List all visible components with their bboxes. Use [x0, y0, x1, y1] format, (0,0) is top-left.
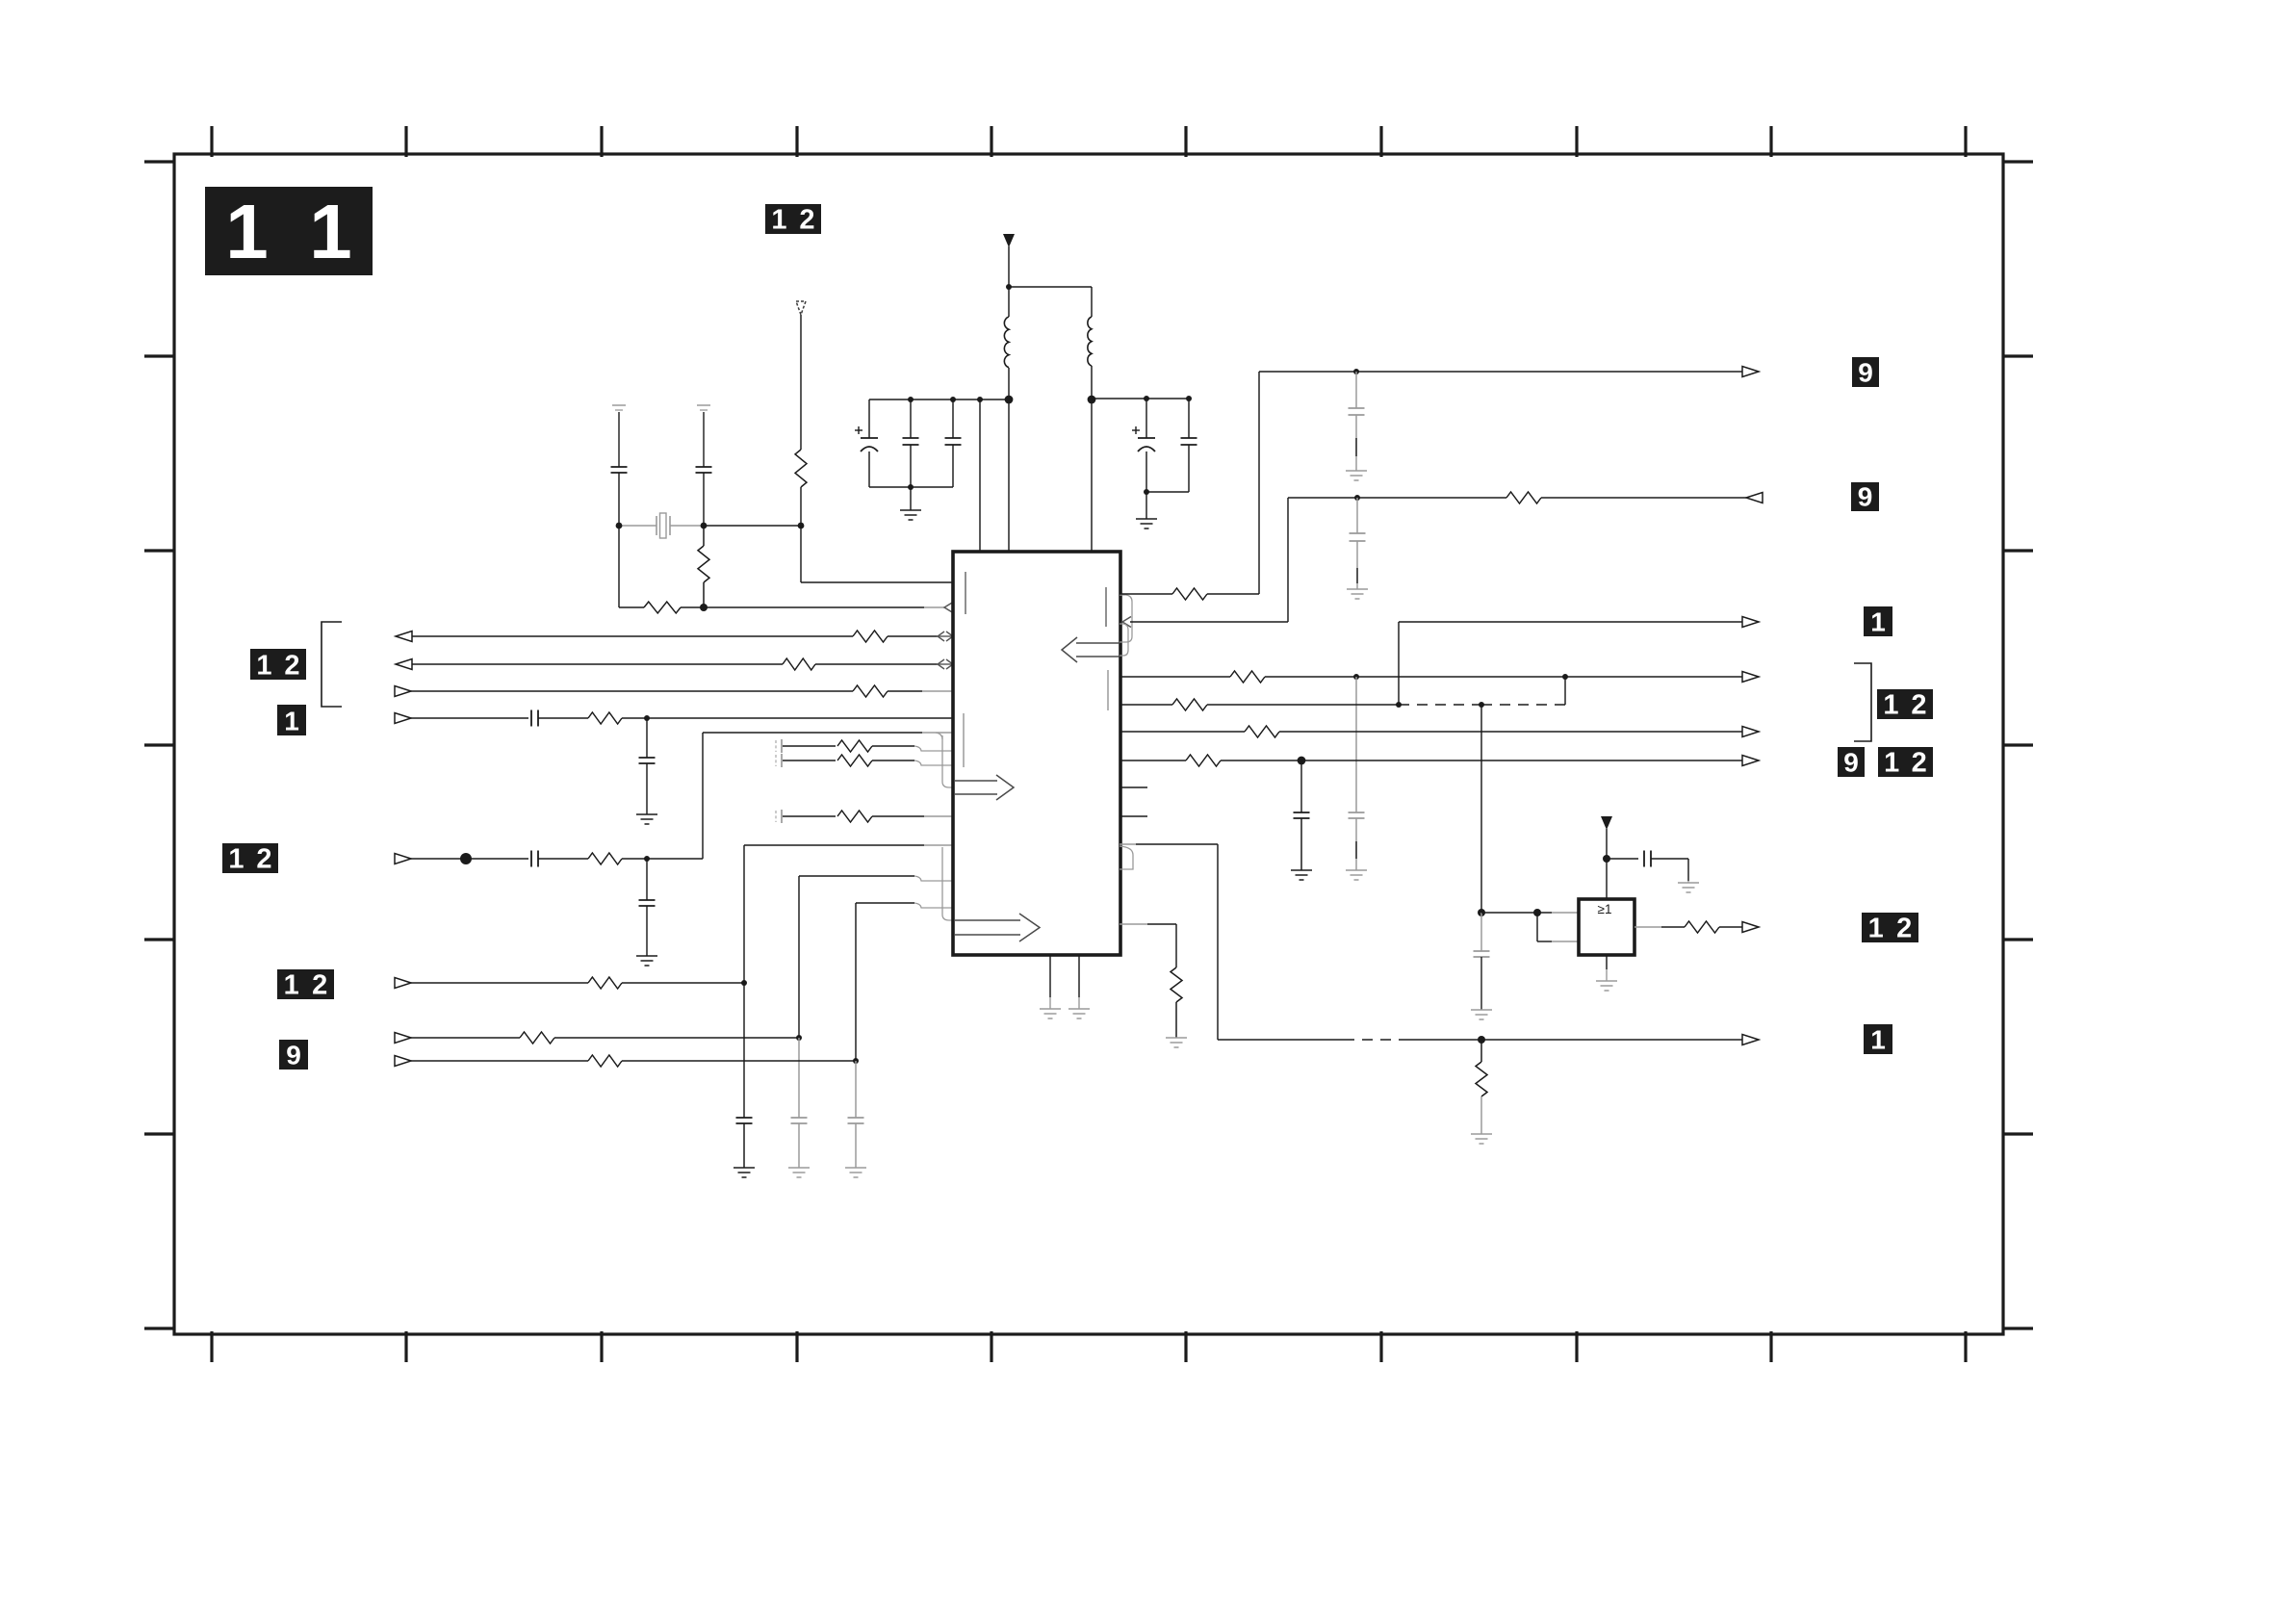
pin arrow row Q in: [1746, 493, 1763, 503]
wire R8 to junction: [622, 858, 703, 860]
resistor R14: [588, 1055, 622, 1067]
bracket left rows: [322, 622, 342, 707]
svg-text:9: 9: [1858, 482, 1873, 512]
wire row J to IC: [799, 876, 953, 882]
resistor R23: [1685, 921, 1719, 933]
capacitor C22: [1474, 913, 1490, 1010]
capacitor C10: [531, 851, 538, 867]
wire column T down: [1480, 705, 1482, 913]
capacitor C13: [776, 754, 782, 767]
pin arrow row M in: [395, 1033, 411, 1044]
wire left bank bottom rail: [869, 486, 953, 488]
wire row N: [411, 1060, 588, 1062]
wire row X pin: [1120, 924, 1176, 967]
wire R13 to junction: [554, 1037, 799, 1039]
node gate input junction 1: [1478, 909, 1485, 916]
resistor R22: [1171, 967, 1182, 1002]
capacitor C8: [531, 710, 538, 727]
svg-text:1: 1: [1883, 690, 1898, 721]
pin arrowhead OSC in: [944, 603, 953, 613]
bus tap gray riser upper left: [936, 733, 953, 787]
wire L2 to IC top: [1091, 366, 1093, 552]
wire R23 to arrow: [1719, 926, 1743, 928]
svg-text:1: 1: [1870, 1025, 1886, 1055]
wire row P pin to resistor: [1120, 594, 1172, 642]
pin bidir arrow row A: [938, 632, 953, 641]
wire R12 to junction: [622, 982, 744, 984]
svg-text:≥1: ≥1: [1598, 902, 1612, 916]
wire right supply rail: [1092, 398, 1189, 400]
page ref 12 right rows: [1877, 689, 1933, 721]
node gate supply junction: [1603, 855, 1610, 863]
capacitor C3: [945, 400, 962, 487]
capacitor C5: [1181, 399, 1197, 492]
power symbol VCC top: [1003, 234, 1015, 247]
sheet number box 11: [205, 187, 373, 275]
net stub cap C6 top: [612, 405, 626, 410]
wire R16 to arrow: [1541, 497, 1746, 499]
wire R7 to IC: [622, 717, 953, 719]
ground C21: [1291, 870, 1312, 880]
pin mark U1 left top: [965, 572, 966, 614]
wire gate input a: [1481, 912, 1579, 914]
ground C9: [636, 814, 657, 824]
wire row S pin to resistor: [1120, 676, 1230, 678]
ground right bank: [1136, 492, 1157, 528]
resistor R9: [837, 740, 872, 752]
node supply big junction B: [1088, 396, 1096, 404]
capacitor C1 electrolytic: [855, 400, 878, 487]
node row S tap 2: [1562, 674, 1568, 680]
page ref 12 row V: [1878, 747, 1933, 779]
svg-text:2: 2: [1896, 914, 1912, 944]
capacitor C17: [848, 1061, 864, 1168]
svg-text:2: 2: [1911, 690, 1926, 721]
page ref 9 left: [279, 1040, 308, 1070]
capacitor C2: [903, 400, 919, 487]
page ref 9 row V: [1838, 747, 1865, 778]
svg-text:2: 2: [1912, 748, 1927, 779]
capacitor C21: [1294, 760, 1310, 870]
wire supply branch right: [1009, 287, 1092, 317]
ground C20: [1346, 870, 1367, 880]
resistor R11: [837, 811, 872, 822]
resistor R18: [1172, 699, 1207, 710]
node row N junction: [853, 1058, 859, 1064]
wire row B: [412, 663, 783, 665]
wire row A to IC: [888, 635, 939, 637]
node row L junction: [741, 980, 747, 986]
svg-text:2: 2: [799, 205, 814, 236]
resistor R3: [619, 602, 704, 613]
wire gate input b: [1537, 913, 1579, 941]
wire R19 to arrow: [1279, 731, 1743, 733]
resistor R17: [1230, 671, 1265, 683]
wire row Q: [1130, 498, 1506, 622]
wire row I to IC: [744, 844, 953, 846]
wire row T dashed 2: [1481, 704, 1565, 706]
node osc junction: [798, 523, 805, 529]
ground IC bottom pin 1: [1040, 955, 1061, 1018]
capacitor C11: [639, 859, 656, 956]
svg-text:1: 1: [284, 707, 299, 736]
svg-text:1: 1: [1884, 748, 1899, 779]
wire gate output: [1635, 926, 1685, 928]
wire L1 to IC top: [1008, 368, 1010, 552]
ground C16: [788, 1168, 810, 1177]
capacitor C16: [791, 1038, 808, 1168]
capacitor C23: [1607, 851, 1688, 882]
svg-text:2: 2: [256, 844, 271, 875]
svg-text:1: 1: [256, 651, 271, 682]
wire gate ground: [1596, 955, 1617, 991]
pin mark U1 left mid: [963, 713, 965, 767]
ground left bank: [900, 487, 921, 520]
ground C22: [1471, 1010, 1492, 1019]
pin arrow row P out: [1742, 367, 1759, 377]
pin arrow row N in: [395, 1056, 411, 1067]
ground C19: [1347, 589, 1368, 599]
pin arrow gate out: [1742, 922, 1759, 933]
svg-text:9: 9: [286, 1041, 301, 1070]
wire row E: [411, 858, 528, 860]
resistor R21: [1476, 1040, 1487, 1134]
wire row U: [1120, 731, 1245, 733]
node osc out: [700, 604, 708, 611]
svg-text:1: 1: [284, 970, 299, 1001]
node row S tap 1: [1353, 674, 1359, 680]
pin arrowhead row Q: [1120, 617, 1131, 657]
resistor R12: [588, 977, 622, 989]
node row P tap: [1353, 369, 1359, 374]
page ref 12 gate out: [1862, 913, 1918, 944]
node crystal right: [701, 523, 708, 529]
wire row W pin jog: [1120, 844, 1136, 869]
wire C6 branch down: [618, 526, 620, 607]
ground R21: [1471, 1134, 1492, 1144]
wire osc out to IC OSC pin: [704, 606, 945, 608]
node supply junction: [1006, 284, 1012, 290]
pin mark U1 right top: [1105, 587, 1107, 627]
pin mark U1 right mid: [1107, 670, 1109, 710]
wire R1 to node X: [800, 487, 802, 526]
wire row M: [411, 1037, 520, 1039]
node left bank junctions: [908, 397, 983, 490]
wire row C: [411, 690, 853, 692]
capacitor C7: [696, 412, 712, 526]
pin arrow row L in: [395, 978, 411, 989]
pin arrow row R out: [1742, 617, 1759, 628]
pin stub NC 2: [1120, 815, 1147, 817]
wire column L riser: [743, 845, 745, 983]
svg-text:1: 1: [309, 189, 352, 274]
wire crystal node to R2 node: [704, 525, 801, 527]
wire row W solid right: [1403, 1039, 1743, 1041]
wire column M riser: [798, 876, 800, 1038]
wire row T dashed 1: [1399, 704, 1481, 706]
svg-text:2: 2: [312, 970, 327, 1001]
svg-text:9: 9: [1843, 748, 1859, 778]
resistor R13: [520, 1032, 554, 1044]
wire row V pin to resistor: [1120, 760, 1186, 761]
wire row V: [1221, 760, 1743, 761]
IC U1: [953, 552, 1120, 955]
page ref 9 row P: [1852, 357, 1879, 388]
wire row F to IC: [872, 746, 953, 752]
power symbol VCC gate: [1601, 816, 1612, 830]
resistor R15: [1172, 588, 1207, 600]
wire row P riser: [1207, 372, 1743, 594]
ground C17: [845, 1168, 866, 1177]
wire row K to IC: [856, 903, 953, 909]
node row E junction: [644, 856, 650, 862]
ground C18: [1346, 471, 1367, 480]
node row V tap: [1298, 757, 1306, 765]
wire row B to IC: [815, 663, 939, 665]
node row W tap: [1478, 1036, 1485, 1044]
resistor R1: [795, 450, 807, 487]
bus arrow U1 right-pointing upper: [955, 775, 1014, 800]
node right bank junctions: [1144, 396, 1192, 495]
wire antenna stem: [800, 315, 802, 450]
wire row T pin to resistor: [1120, 704, 1172, 706]
capacitor C4 electrolytic: [1132, 399, 1155, 492]
wire left supply rail: [869, 399, 1009, 400]
pin arrow row C in: [395, 686, 411, 697]
inductor L2: [1088, 317, 1092, 366]
ground C15: [734, 1168, 755, 1177]
wire row E riser to IC: [703, 733, 953, 859]
svg-text:1: 1: [225, 189, 269, 274]
wire row W dashed: [1344, 1039, 1403, 1041]
wire right bank bottom rail: [1146, 491, 1189, 493]
node row D junction: [644, 715, 650, 721]
capacitor C15: [736, 983, 753, 1168]
capacitor C18: [1349, 372, 1365, 471]
bus tap gray riser lower left: [942, 847, 953, 920]
node gate input junction 2: [1533, 909, 1541, 916]
antenna stub connector: [796, 301, 806, 315]
inductor L1: [1004, 317, 1009, 368]
node row T tap 1: [1396, 702, 1402, 708]
svg-text:1: 1: [1870, 607, 1886, 637]
OR gate U2: [1579, 899, 1635, 955]
resistor R19: [1245, 726, 1279, 737]
node row T tap 2: [1479, 702, 1484, 708]
resistor R6: [853, 685, 888, 697]
node crystal left: [616, 523, 623, 529]
pin arrow row E in: [395, 854, 411, 864]
pin stub NC 1: [1120, 786, 1147, 788]
net stub cap C7 top: [697, 405, 710, 410]
wire column N riser: [855, 903, 857, 1061]
resistor R4: [853, 631, 888, 642]
pin arrow row W out: [1742, 1035, 1759, 1045]
ground C11: [636, 956, 657, 966]
page ref 12 left bracket rows: [250, 649, 306, 682]
page ref 12 row E: [222, 843, 278, 875]
wire row T solid: [1207, 704, 1399, 706]
resistor R16: [1506, 492, 1541, 503]
wire VCC to gate: [1606, 829, 1608, 899]
wire row S: [1265, 676, 1743, 678]
wire row H cap to resistor: [783, 815, 836, 817]
svg-text:1: 1: [228, 844, 244, 875]
svg-text:1: 1: [771, 205, 786, 236]
pin arrow row V out: [1742, 756, 1759, 766]
bus arrow U1 in left-pointing: [1062, 637, 1120, 662]
page ref 12 top: [765, 204, 821, 236]
wire R22 to ground: [1175, 1002, 1177, 1038]
capacitor C6: [611, 412, 628, 526]
wire C8 to R7: [538, 717, 588, 719]
svg-text:2: 2: [284, 651, 299, 682]
ground IC bottom pin 2: [1068, 955, 1090, 1018]
wire row W: [1136, 844, 1344, 1040]
wire R14 to junction: [622, 1060, 856, 1062]
resistor R10: [837, 755, 872, 766]
wire row F cap to resistor: [783, 745, 836, 747]
wire row H to IC: [872, 815, 953, 817]
node row Q tap: [1354, 495, 1360, 501]
wire row G to IC: [872, 760, 953, 766]
wire rail tap to IC pin: [979, 400, 981, 552]
node row E tap: [460, 853, 472, 864]
resistor R20: [1186, 755, 1221, 766]
pin arrow row S out: [1742, 672, 1759, 683]
capacitor C9: [639, 718, 656, 814]
pin arrow row D in: [395, 713, 411, 724]
border frame: [144, 126, 2033, 1362]
wire osc node to IC pin 1: [801, 526, 953, 582]
capacitor C14: [776, 810, 782, 823]
svg-text:1: 1: [1868, 914, 1884, 944]
page ref 1 left: [277, 705, 306, 736]
bracket right rows: [1854, 663, 1871, 741]
svg-text:9: 9: [1858, 358, 1873, 388]
pin arrow row B out: [396, 659, 412, 670]
capacitor C20: [1349, 677, 1365, 870]
pin arrow row A out: [396, 632, 412, 642]
node supply big junction A: [1005, 396, 1014, 404]
crystal X1: [619, 513, 704, 538]
page ref 9 row Q: [1851, 482, 1879, 512]
wire row A: [412, 635, 853, 637]
ground R22: [1166, 1038, 1187, 1047]
wire power stem: [1008, 246, 1010, 317]
resistor R8: [588, 853, 622, 864]
resistor R7: [588, 712, 622, 724]
wire C10 to R8: [538, 858, 588, 860]
page ref 12 row L: [277, 969, 334, 1001]
pin arrow row U out: [1742, 727, 1759, 737]
resistor R2: [698, 526, 709, 607]
page ref 1 row W: [1864, 1024, 1892, 1055]
page ref 1 row R: [1864, 606, 1892, 637]
wire row L: [411, 982, 588, 984]
wire row R riser: [1399, 622, 1743, 705]
wire row T riser to row S: [1564, 677, 1566, 705]
wire row G cap to resistor: [783, 760, 836, 761]
pin bidir arrow row B: [938, 659, 953, 669]
bus arrow U1 right-pointing lower: [955, 914, 1040, 941]
resistor R5: [783, 658, 815, 670]
node row M junction: [796, 1035, 802, 1041]
capacitor C19: [1350, 498, 1366, 589]
capacitor C12: [776, 739, 782, 753]
wire row C to IC: [888, 690, 953, 692]
ground C23: [1678, 881, 1699, 892]
wire row D: [411, 717, 528, 719]
